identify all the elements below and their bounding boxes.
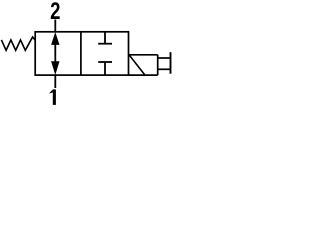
svg-text:2: 2 [50,0,60,24]
actuator fork upper line [158,57,171,59]
flow path double arrow shaft (left square) [54,42,56,64]
blocked port T bottom (right square) [98,61,112,63]
actuator end plate bar [170,52,172,73]
solenoid diagonal [129,55,145,75]
divider between position squares [80,32,82,75]
down arrowhead [51,61,59,75]
spring (return spring, left) [1,37,35,50]
port 2 line [54,20,56,33]
actuator fork lower line [158,68,171,70]
port 1 label [53,89,56,105]
solenoid box bottom edge [129,74,158,76]
valve body outer rectangle [35,32,128,75]
port 1 line [54,74,56,88]
blocked port T top (right square) [104,32,106,44]
solenoid box right edge [157,55,159,75]
solenoid box top edge [129,54,158,56]
up arrowhead [51,32,59,45]
